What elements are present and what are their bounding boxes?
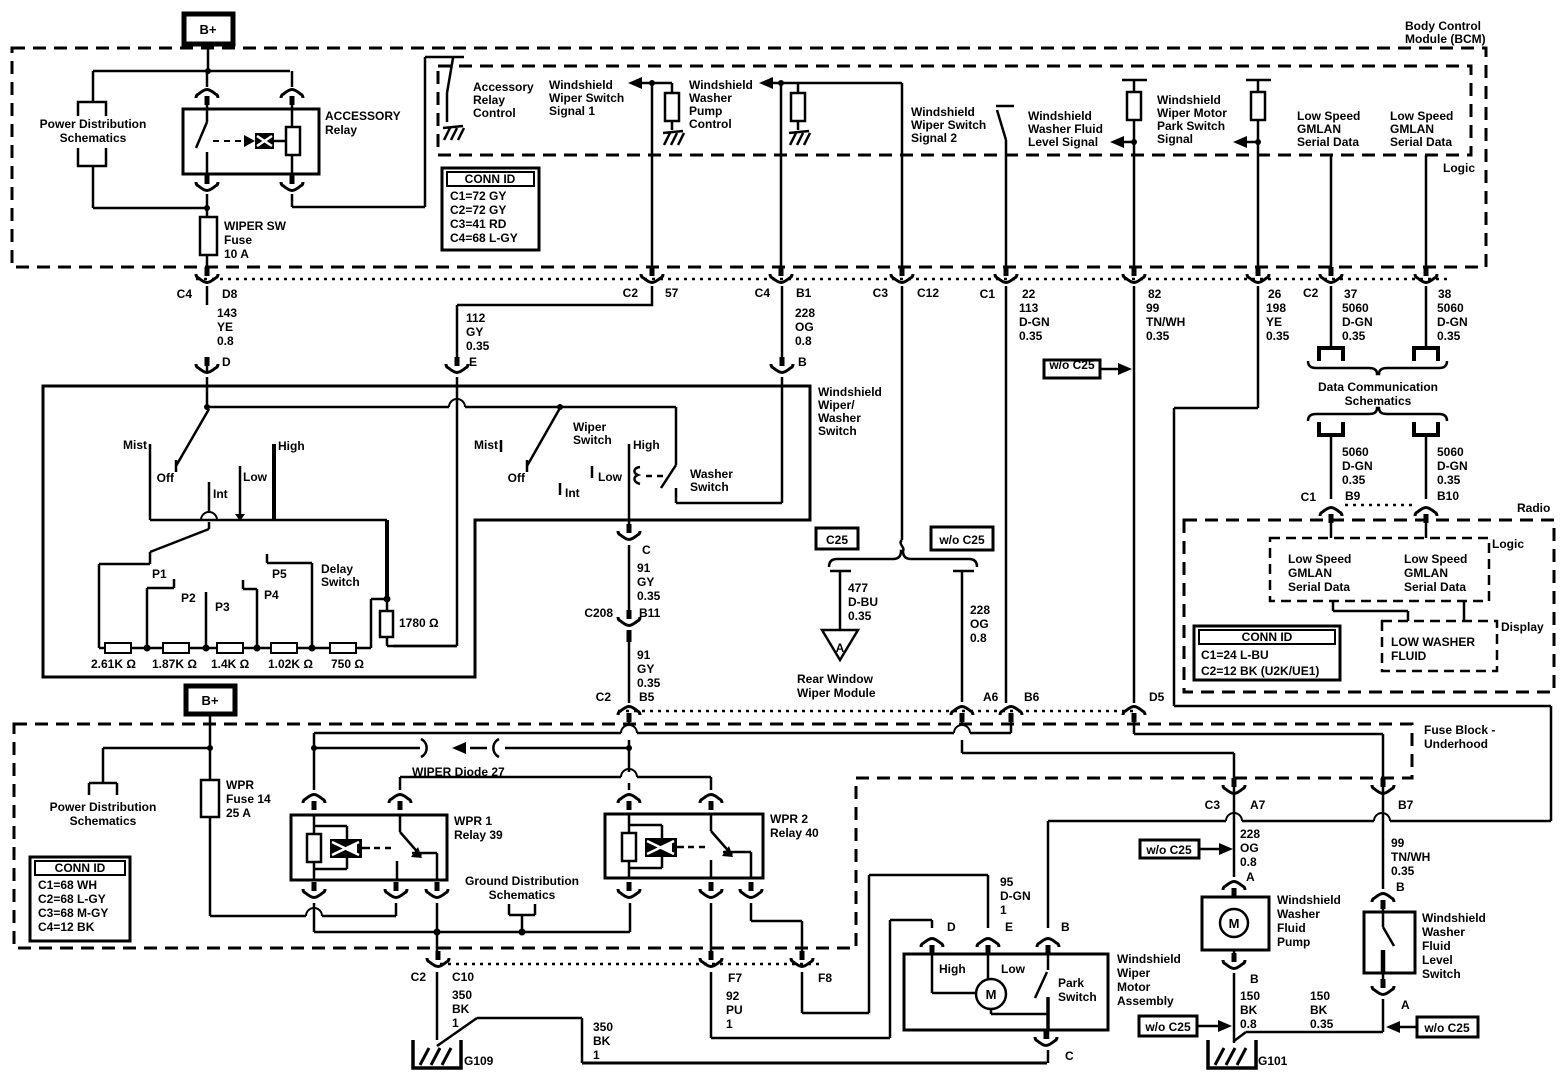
svg-text:Switch: Switch — [1058, 990, 1097, 1004]
svg-text:E: E — [469, 355, 477, 369]
svg-text:0.35: 0.35 — [1146, 329, 1170, 343]
svg-text:B+: B+ — [202, 693, 219, 708]
svg-text:Fluid: Fluid — [1422, 939, 1451, 953]
svg-text:GY: GY — [466, 325, 483, 339]
svg-text:5060: 5060 — [1342, 301, 1369, 315]
svg-text:Low Speed: Low Speed — [1390, 109, 1453, 123]
svg-text:C: C — [1065, 1049, 1074, 1063]
svg-text:Mist: Mist — [123, 438, 147, 452]
svg-text:CONN ID: CONN ID — [1242, 630, 1293, 644]
svg-text:37: 37 — [1344, 287, 1358, 301]
svg-text:Level: Level — [1422, 953, 1453, 967]
svg-text:B: B — [1061, 920, 1070, 934]
svg-text:0.8: 0.8 — [1240, 855, 1257, 869]
svg-text:M: M — [1229, 916, 1240, 931]
svg-text:1: 1 — [726, 1017, 733, 1031]
svg-text:0.8: 0.8 — [217, 334, 234, 348]
svg-text:Ground Distribution: Ground Distribution — [465, 874, 579, 888]
svg-text:GMLAN: GMLAN — [1390, 122, 1434, 136]
svg-text:C3: C3 — [873, 286, 889, 300]
svg-text:Washer: Washer — [1277, 907, 1320, 921]
svg-text:0.35: 0.35 — [466, 339, 490, 353]
svg-text:E: E — [1005, 920, 1013, 934]
svg-text:Schematics: Schematics — [70, 814, 137, 828]
svg-text:GY: GY — [637, 575, 654, 589]
svg-text:w/o C25: w/o C25 — [1423, 1021, 1470, 1035]
svg-text:D-GN: D-GN — [1437, 315, 1468, 329]
svg-text:Low: Low — [243, 470, 268, 484]
svg-text:B6: B6 — [1024, 690, 1040, 704]
svg-text:w/o C25: w/o C25 — [1144, 1020, 1191, 1034]
svg-text:Relay 39: Relay 39 — [454, 828, 503, 842]
svg-text:1780 Ω: 1780 Ω — [399, 616, 439, 630]
svg-text:38: 38 — [1438, 287, 1452, 301]
svg-text:ACCESSORY: ACCESSORY — [325, 109, 401, 123]
svg-text:5060: 5060 — [1437, 445, 1464, 459]
svg-text:P5: P5 — [272, 567, 287, 581]
svg-text:WPR 1: WPR 1 — [454, 814, 492, 828]
svg-text:B9: B9 — [1345, 489, 1361, 503]
svg-text:Fluid: Fluid — [1277, 921, 1306, 935]
svg-text:P1: P1 — [152, 567, 167, 581]
svg-text:Schematics: Schematics — [1345, 394, 1412, 408]
svg-text:Relay: Relay — [473, 93, 505, 107]
svg-text:C1: C1 — [1301, 490, 1317, 504]
svg-text:WIPER SW: WIPER SW — [224, 219, 287, 233]
svg-text:TN/WH: TN/WH — [1391, 850, 1430, 864]
svg-text:Park: Park — [1058, 976, 1084, 990]
svg-text:150: 150 — [1240, 989, 1260, 1003]
svg-text:350: 350 — [452, 988, 472, 1002]
svg-text:Fuse Block -: Fuse Block - — [1424, 723, 1495, 737]
svg-text:0.35: 0.35 — [1019, 329, 1043, 343]
svg-text:Signal 1: Signal 1 — [549, 104, 595, 118]
svg-text:Washer: Washer — [689, 91, 732, 105]
svg-text:Windshield: Windshield — [1117, 952, 1181, 966]
svg-text:0.35: 0.35 — [1437, 329, 1461, 343]
svg-text:Wiper Motor: Wiper Motor — [1157, 106, 1227, 120]
svg-text:A: A — [1246, 870, 1255, 884]
svg-text:Motor: Motor — [1117, 980, 1151, 994]
svg-text:Serial Data: Serial Data — [1297, 135, 1359, 149]
svg-text:0.35: 0.35 — [637, 589, 661, 603]
svg-text:C25: C25 — [826, 533, 848, 547]
svg-text:C4=12 BK: C4=12 BK — [38, 920, 95, 934]
svg-text:D: D — [947, 920, 956, 934]
svg-text:w/o C25: w/o C25 — [1145, 843, 1192, 857]
svg-text:112: 112 — [466, 311, 486, 325]
svg-text:Wiper Switch: Wiper Switch — [549, 91, 624, 105]
svg-text:1: 1 — [593, 1048, 600, 1062]
svg-text:1: 1 — [1000, 903, 1007, 917]
svg-text:B1: B1 — [796, 286, 812, 300]
svg-text:Signal 2: Signal 2 — [911, 131, 957, 145]
svg-text:198: 198 — [1266, 301, 1286, 315]
svg-text:w/o C25: w/o C25 — [1048, 358, 1095, 372]
svg-text:C1=72 GY: C1=72 GY — [450, 189, 506, 203]
svg-text:Serial Data: Serial Data — [1288, 580, 1350, 594]
svg-text:5060: 5060 — [1437, 301, 1464, 315]
svg-text:Off: Off — [157, 471, 175, 485]
svg-text:C3=68 M-GY: C3=68 M-GY — [38, 906, 108, 920]
svg-text:Windshield: Windshield — [1028, 109, 1092, 123]
svg-text:Int: Int — [213, 487, 228, 501]
svg-text:Switch: Switch — [690, 480, 729, 494]
svg-text:Serial Data: Serial Data — [1390, 135, 1452, 149]
svg-text:92: 92 — [726, 989, 740, 1003]
svg-text:D-GN: D-GN — [1342, 315, 1373, 329]
svg-text:High: High — [939, 962, 966, 976]
svg-text:OG: OG — [970, 617, 989, 631]
svg-text:D: D — [222, 355, 231, 369]
svg-text:B: B — [1396, 880, 1405, 894]
svg-text:350: 350 — [593, 1020, 613, 1034]
svg-text:WPR 2: WPR 2 — [770, 812, 808, 826]
svg-text:YE: YE — [1266, 315, 1282, 329]
svg-text:B+: B+ — [200, 22, 217, 37]
svg-text:Low Speed: Low Speed — [1288, 552, 1351, 566]
svg-text:B: B — [798, 355, 807, 369]
svg-text:C1=24 L-BU: C1=24 L-BU — [1201, 648, 1269, 662]
svg-text:C3=41 RD: C3=41 RD — [450, 217, 507, 231]
svg-text:Washer Fluid: Washer Fluid — [1028, 122, 1103, 136]
svg-text:F8: F8 — [818, 971, 832, 985]
svg-text:Windshield: Windshield — [689, 78, 753, 92]
svg-text:GMLAN: GMLAN — [1404, 566, 1448, 580]
svg-text:Washer: Washer — [690, 467, 733, 481]
svg-text:Low: Low — [598, 470, 623, 484]
svg-text:GY: GY — [637, 662, 654, 676]
svg-text:Logic: Logic — [1443, 161, 1475, 175]
svg-text:Low Speed: Low Speed — [1404, 552, 1467, 566]
svg-text:Off: Off — [508, 471, 526, 485]
svg-text:2.61K Ω: 2.61K Ω — [91, 657, 136, 671]
svg-text:Relay: Relay — [325, 123, 357, 137]
svg-text:G101: G101 — [1258, 1054, 1288, 1068]
svg-text:Wiper Module: Wiper Module — [797, 686, 876, 700]
svg-text:A6: A6 — [983, 690, 999, 704]
svg-text:B: B — [1250, 972, 1259, 986]
svg-text:C: C — [642, 543, 651, 557]
svg-text:Accessory: Accessory — [473, 80, 534, 94]
svg-text:Park Switch: Park Switch — [1157, 119, 1225, 133]
svg-text:1.02K Ω: 1.02K Ω — [268, 657, 313, 671]
svg-text:Wiper/: Wiper/ — [818, 398, 855, 412]
svg-text:Control: Control — [689, 117, 732, 131]
svg-text:Schematics: Schematics — [60, 131, 127, 145]
svg-text:C10: C10 — [452, 970, 474, 984]
svg-text:Low: Low — [1001, 962, 1026, 976]
svg-text:Wiper Switch: Wiper Switch — [911, 118, 986, 132]
svg-text:C2=68 L-GY: C2=68 L-GY — [38, 892, 106, 906]
svg-text:26: 26 — [1268, 287, 1282, 301]
svg-text:Switch: Switch — [818, 424, 857, 438]
svg-text:w/o C25: w/o C25 — [938, 533, 985, 547]
svg-text:Underhood: Underhood — [1424, 737, 1488, 751]
svg-text:A: A — [836, 641, 845, 655]
svg-text:Fuse: Fuse — [224, 233, 252, 247]
svg-text:D5: D5 — [1149, 690, 1165, 704]
svg-text:0.35: 0.35 — [1342, 473, 1366, 487]
svg-text:BK: BK — [593, 1034, 611, 1048]
svg-text:0.35: 0.35 — [848, 609, 872, 623]
svg-text:C3: C3 — [1205, 798, 1221, 812]
svg-text:CONN ID: CONN ID — [465, 172, 516, 186]
svg-text:Windshield: Windshield — [1277, 893, 1341, 907]
svg-text:Body Control: Body Control — [1405, 19, 1481, 33]
svg-text:C12: C12 — [917, 286, 939, 300]
svg-text:Module (BCM): Module (BCM) — [1405, 32, 1486, 46]
svg-text:Data Communication: Data Communication — [1318, 380, 1438, 394]
svg-text:G109: G109 — [464, 1054, 494, 1068]
svg-text:113: 113 — [1019, 301, 1039, 315]
svg-text:P3: P3 — [215, 600, 230, 614]
svg-text:C1: C1 — [980, 287, 996, 301]
svg-text:Delay: Delay — [321, 562, 353, 576]
svg-text:High: High — [633, 438, 660, 452]
svg-text:BK: BK — [1240, 1003, 1258, 1017]
svg-text:10 A: 10 A — [224, 247, 249, 261]
svg-text:C4: C4 — [755, 286, 771, 300]
svg-text:150: 150 — [1310, 989, 1330, 1003]
svg-text:Low Speed: Low Speed — [1297, 109, 1360, 123]
svg-text:Pump: Pump — [1277, 935, 1310, 949]
svg-text:0.35: 0.35 — [1266, 329, 1290, 343]
svg-text:1: 1 — [452, 1016, 459, 1030]
svg-text:Logic: Logic — [1492, 537, 1524, 551]
svg-text:Serial Data: Serial Data — [1404, 580, 1466, 594]
svg-text:Windshield: Windshield — [549, 78, 613, 92]
svg-text:P2: P2 — [181, 591, 196, 605]
svg-text:A7: A7 — [1250, 798, 1266, 812]
svg-text:WIPER Diode 27: WIPER Diode 27 — [412, 765, 505, 779]
svg-text:D-GN: D-GN — [1437, 459, 1468, 473]
svg-text:C2: C2 — [1303, 286, 1319, 300]
svg-text:99: 99 — [1391, 836, 1405, 850]
svg-text:Windshield: Windshield — [1422, 911, 1486, 925]
svg-text:228: 228 — [1240, 827, 1260, 841]
svg-text:C4: C4 — [177, 287, 193, 301]
svg-text:B5: B5 — [639, 690, 655, 704]
svg-text:B11: B11 — [639, 606, 661, 620]
svg-text:0.35: 0.35 — [1342, 329, 1366, 343]
svg-text:0.35: 0.35 — [1310, 1017, 1334, 1031]
svg-text:Windshield: Windshield — [818, 385, 882, 399]
svg-text:LOW WASHER: LOW WASHER — [1391, 635, 1475, 649]
svg-text:82: 82 — [1148, 287, 1162, 301]
svg-text:OG: OG — [795, 320, 814, 334]
svg-text:Display: Display — [1501, 620, 1544, 634]
svg-text:57: 57 — [665, 286, 679, 300]
svg-text:F7: F7 — [728, 971, 742, 985]
svg-text:GMLAN: GMLAN — [1288, 566, 1332, 580]
svg-text:0.8: 0.8 — [1240, 1017, 1257, 1031]
svg-text:PU: PU — [726, 1003, 743, 1017]
svg-text:0.8: 0.8 — [970, 631, 987, 645]
svg-text:Power Distribution: Power Distribution — [40, 117, 147, 131]
svg-text:0.8: 0.8 — [795, 334, 812, 348]
svg-text:228: 228 — [970, 603, 990, 617]
svg-text:Switch: Switch — [573, 433, 612, 447]
svg-text:Washer: Washer — [818, 411, 861, 425]
svg-text:25 A: 25 A — [226, 806, 251, 820]
svg-text:D-GN: D-GN — [1342, 459, 1373, 473]
svg-text:Schematics: Schematics — [489, 888, 556, 902]
svg-text:C2=12 BK (U2K/UE1): C2=12 BK (U2K/UE1) — [1201, 664, 1319, 678]
svg-text:0.35: 0.35 — [637, 676, 661, 690]
svg-text:D-GN: D-GN — [1019, 315, 1050, 329]
svg-text:BK: BK — [452, 1002, 470, 1016]
svg-text:BK: BK — [1310, 1003, 1328, 1017]
svg-text:Relay 40: Relay 40 — [770, 826, 819, 840]
svg-text:C4=68 L-GY: C4=68 L-GY — [450, 231, 518, 245]
svg-text:99: 99 — [1146, 301, 1160, 315]
svg-text:0.35: 0.35 — [1437, 473, 1461, 487]
svg-text:FLUID: FLUID — [1391, 649, 1427, 663]
svg-text:228: 228 — [795, 306, 815, 320]
svg-text:D-GN: D-GN — [1000, 889, 1031, 903]
svg-text:B10: B10 — [1437, 489, 1459, 503]
svg-text:750 Ω: 750 Ω — [331, 657, 364, 671]
svg-text:Switch: Switch — [1422, 967, 1461, 981]
svg-text:CONN ID: CONN ID — [55, 861, 106, 875]
svg-text:91: 91 — [637, 648, 651, 662]
svg-text:WPR: WPR — [226, 778, 254, 792]
svg-text:Assembly: Assembly — [1117, 994, 1174, 1008]
svg-text:D-BU: D-BU — [848, 595, 878, 609]
svg-text:Wiper: Wiper — [573, 420, 607, 434]
svg-text:91: 91 — [637, 561, 651, 575]
svg-text:5060: 5060 — [1342, 445, 1369, 459]
svg-text:Mist: Mist — [474, 438, 498, 452]
svg-text:22: 22 — [1022, 287, 1036, 301]
svg-text:Control: Control — [473, 106, 516, 120]
svg-text:OG: OG — [1240, 841, 1259, 855]
svg-text:B7: B7 — [1398, 798, 1414, 812]
svg-text:M: M — [986, 987, 997, 1002]
svg-text:Rear Window: Rear Window — [797, 672, 874, 686]
svg-text:1.87K Ω: 1.87K Ω — [152, 657, 197, 671]
svg-text:Signal: Signal — [1157, 132, 1193, 146]
svg-text:477: 477 — [848, 581, 868, 595]
svg-text:P4: P4 — [264, 588, 279, 602]
svg-text:1.4K Ω: 1.4K Ω — [211, 657, 250, 671]
svg-text:C2: C2 — [596, 690, 612, 704]
svg-text:TN/WH: TN/WH — [1146, 315, 1185, 329]
svg-text:C2=72 GY: C2=72 GY — [450, 203, 506, 217]
svg-text:GMLAN: GMLAN — [1297, 122, 1341, 136]
svg-text:D8: D8 — [222, 287, 238, 301]
svg-text:C2: C2 — [623, 286, 639, 300]
svg-text:Radio: Radio — [1517, 501, 1550, 515]
svg-text:Washer: Washer — [1422, 925, 1465, 939]
svg-text:Windshield: Windshield — [911, 105, 975, 119]
svg-text:Level Signal: Level Signal — [1028, 135, 1098, 149]
svg-text:Fuse 14: Fuse 14 — [226, 792, 271, 806]
svg-text:Int: Int — [565, 486, 580, 500]
svg-text:Wiper: Wiper — [1117, 966, 1151, 980]
svg-text:95: 95 — [1000, 875, 1014, 889]
svg-text:Windshield: Windshield — [1157, 93, 1221, 107]
svg-text:Switch: Switch — [321, 575, 360, 589]
svg-text:Pump: Pump — [689, 104, 722, 118]
svg-text:High: High — [278, 439, 305, 453]
svg-text:A: A — [1401, 998, 1410, 1012]
svg-text:YE: YE — [217, 320, 233, 334]
svg-text:Power Distribution: Power Distribution — [50, 800, 157, 814]
svg-text:0.35: 0.35 — [1391, 864, 1415, 878]
svg-text:C208: C208 — [584, 606, 613, 620]
svg-text:143: 143 — [217, 306, 237, 320]
svg-text:C2: C2 — [411, 970, 427, 984]
svg-text:C1=68 WH: C1=68 WH — [38, 878, 97, 892]
